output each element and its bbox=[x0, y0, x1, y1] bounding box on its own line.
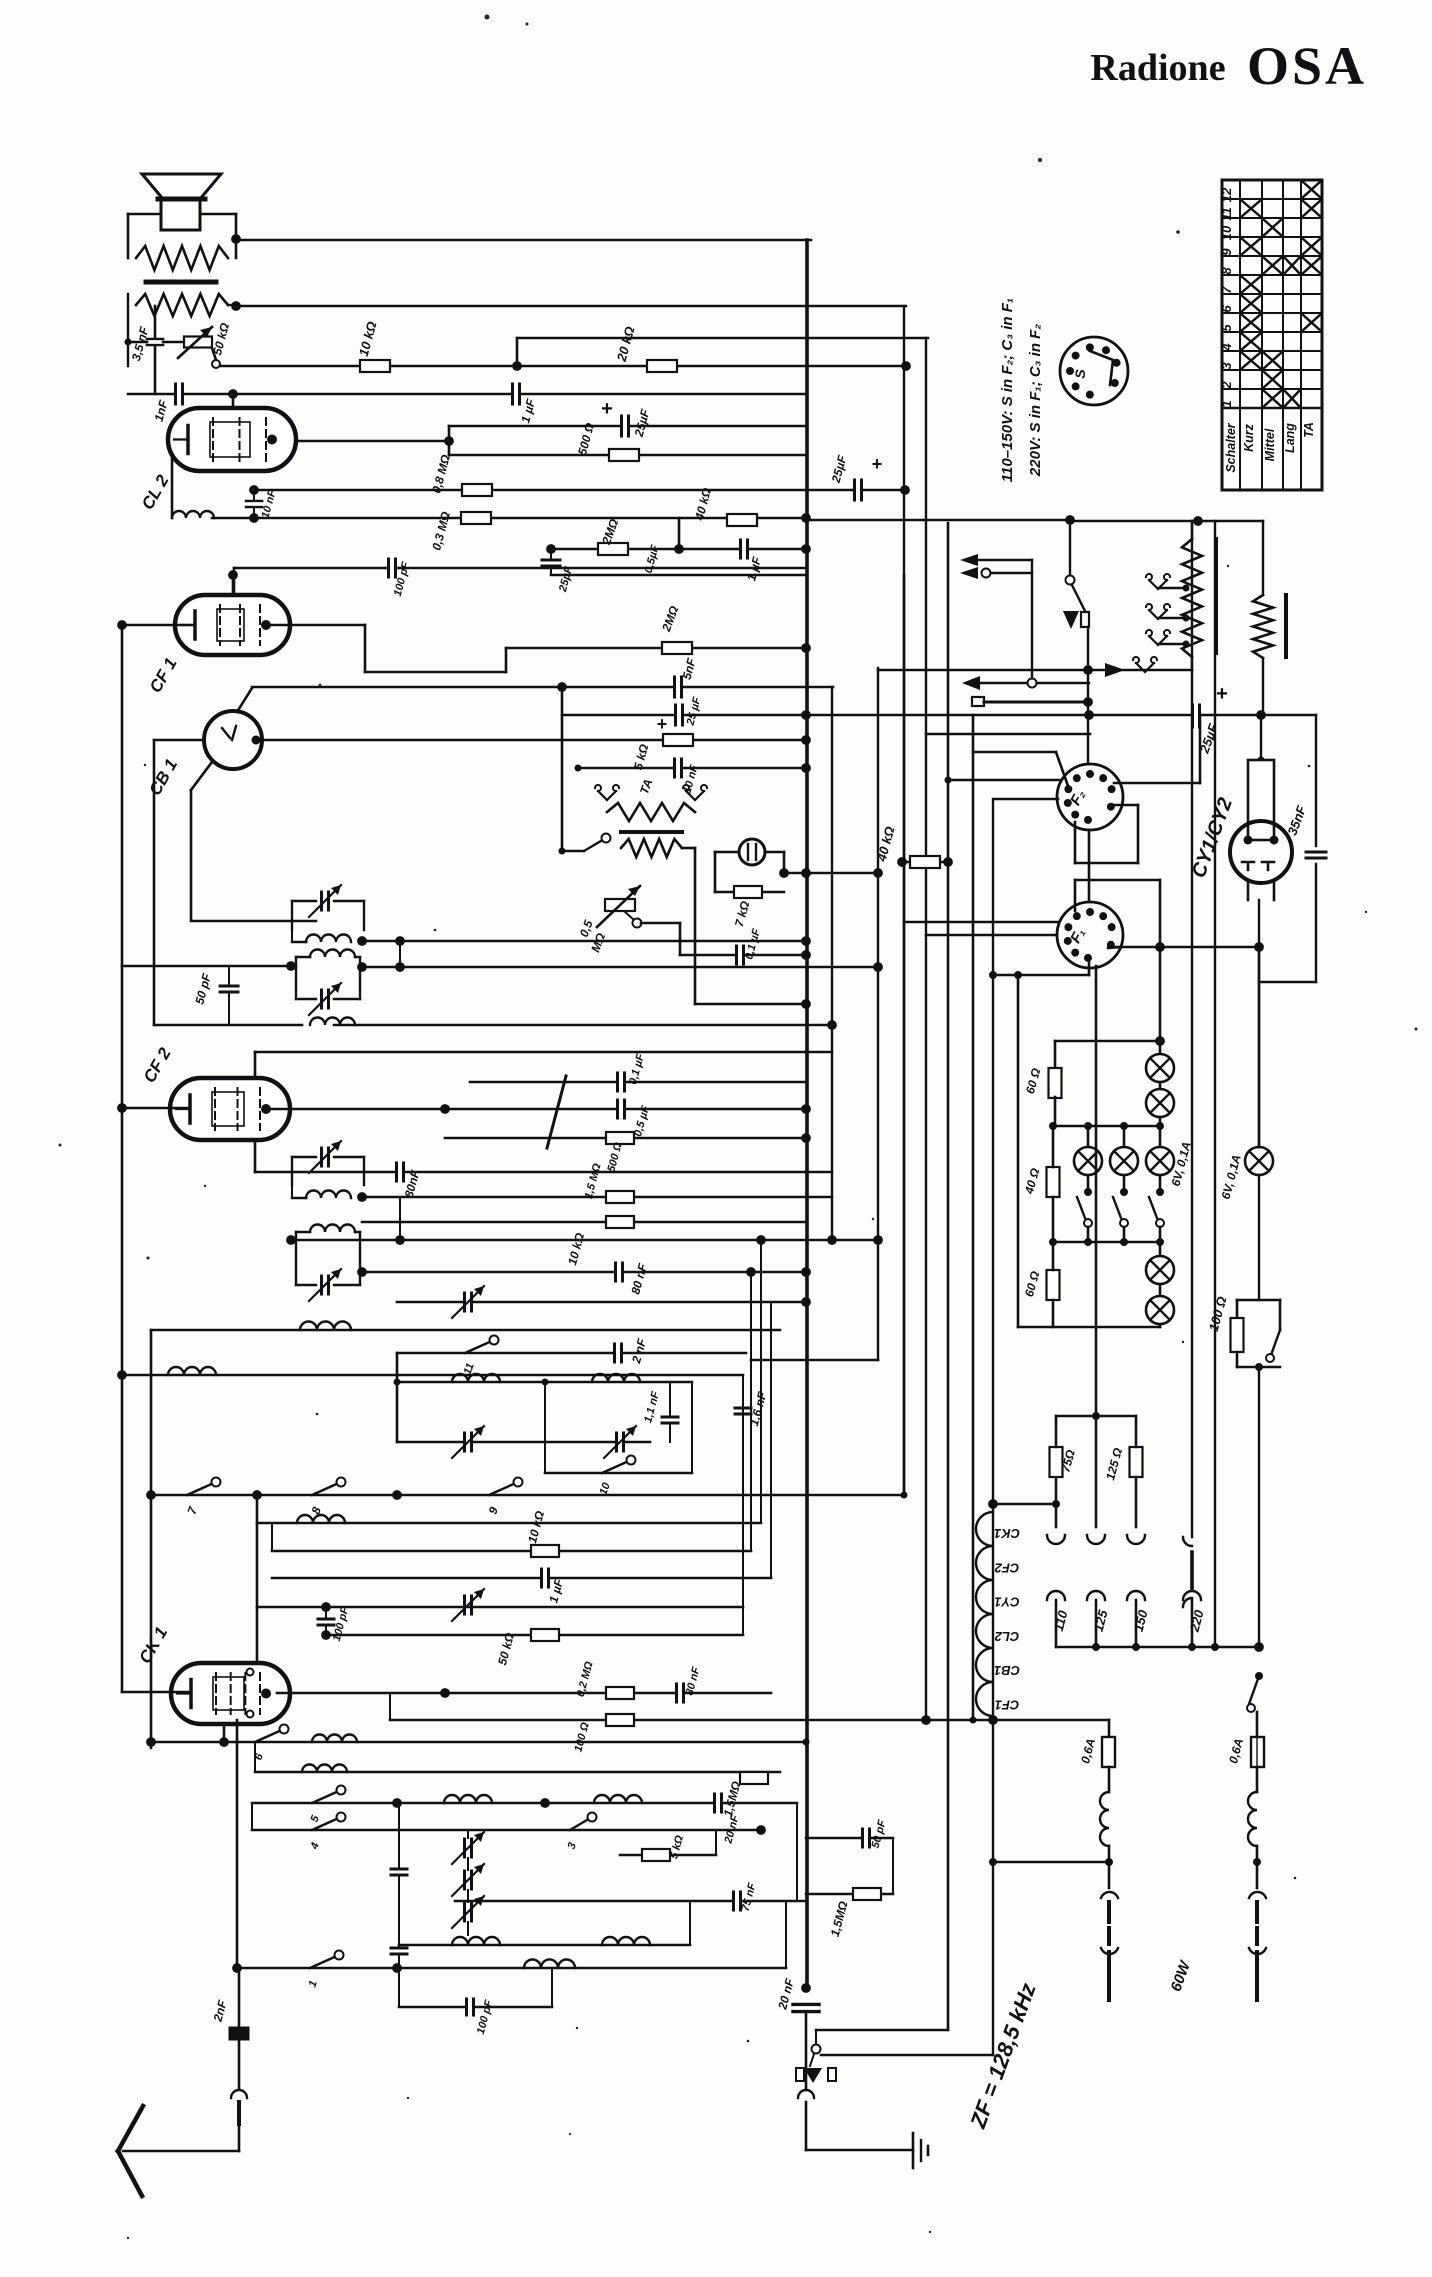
svg-text:CY1: CY1 bbox=[994, 1595, 1019, 1610]
svg-text:2: 2 bbox=[1219, 381, 1234, 390]
svg-text:Lang: Lang bbox=[1283, 423, 1297, 453]
svg-text:11: 11 bbox=[1219, 207, 1234, 221]
svg-text:Kurz: Kurz bbox=[1242, 423, 1256, 452]
svg-text:CK1: CK1 bbox=[994, 1526, 1020, 1541]
svg-text:Radione: Radione bbox=[1090, 47, 1225, 89]
svg-text:+: + bbox=[1216, 683, 1228, 705]
svg-text:CB1: CB1 bbox=[994, 1663, 1020, 1678]
svg-text:4: 4 bbox=[1219, 343, 1234, 352]
svg-text:TA: TA bbox=[1302, 422, 1316, 438]
svg-text:+: + bbox=[657, 714, 668, 734]
svg-text:12: 12 bbox=[1219, 187, 1234, 202]
svg-text:220V: S in F₁; C₃ in F₂: 220V: S in F₁; C₃ in F₂ bbox=[1027, 324, 1044, 477]
svg-text:3: 3 bbox=[1219, 362, 1234, 370]
svg-text:9: 9 bbox=[1219, 248, 1234, 256]
svg-text:Mittel: Mittel bbox=[1263, 428, 1277, 461]
svg-text:CF1: CF1 bbox=[995, 1698, 1020, 1713]
svg-text:+: + bbox=[601, 398, 613, 420]
svg-text:10: 10 bbox=[1219, 225, 1234, 240]
svg-text:CL2: CL2 bbox=[994, 1629, 1019, 1644]
svg-text:S: S bbox=[1072, 369, 1088, 379]
svg-text:OSA: OSA bbox=[1247, 36, 1367, 96]
svg-text:6: 6 bbox=[1219, 305, 1234, 313]
svg-text:5: 5 bbox=[1219, 324, 1234, 332]
svg-text:Schalter: Schalter bbox=[1224, 422, 1238, 472]
svg-text:+: + bbox=[872, 454, 883, 474]
svg-text:110–150V: S in F₂; C₃ in F₁: 110–150V: S in F₂; C₃ in F₁ bbox=[999, 298, 1016, 482]
svg-text:CF2: CF2 bbox=[994, 1560, 1019, 1575]
svg-text:8: 8 bbox=[1219, 267, 1234, 275]
svg-text:1: 1 bbox=[1219, 400, 1234, 407]
svg-text:7: 7 bbox=[1219, 286, 1234, 294]
